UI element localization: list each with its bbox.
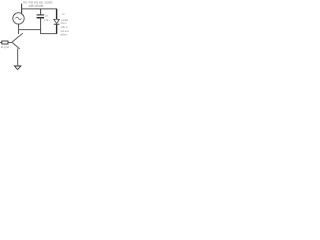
wire: capacitor bottom lead down to bottom rail [40,18,42,34]
svg-text:after: after [61,33,68,37]
svg-text:C1: C1 [44,18,49,22]
capacitor C1 top plate [37,14,45,16]
wire: lower diagonal to ground wire [12,43,19,49]
wire: resistor right lead [8,41,12,43]
switch lever (upper diagonal) [12,33,23,42]
ground symbol (hollow triangle) [14,66,21,70]
background [0,0,72,72]
wire: right vertical upper (rail to diode) [56,9,58,20]
svg-text:with diode: with diode [29,4,44,8]
wire: capacitor top lead [40,9,42,14]
diode D1 cathode bar [54,23,60,25]
wire: right vertical lower (diode to bottom rail) [56,25,58,34]
node A: top-left stub above rail [21,4,23,9]
wire: ground vertical [17,48,19,65]
svg-text:1u: 1u [45,14,49,18]
diode D1 triangle [54,19,60,23]
wire: source bottom lead [18,24,20,34]
wire: left vertical from rail to source top [21,9,23,14]
source V1 sine symbol [16,17,22,20]
svg-text:counter: counter [45,1,54,5]
source V1: AC source circle [13,13,24,24]
wire: top rail [22,8,58,10]
wire: resistor left lead to image edge [0,42,2,44]
capacitor C1 bottom plate [37,17,45,19]
wire: branch from source bottom to capacitor bottom node [19,29,41,31]
wire: bottom rail [41,33,58,35]
resistor R1 box [2,41,8,44]
svg-text:1k gnd: 1k gnd [1,45,10,49]
svg-text:im: im [23,1,27,5]
